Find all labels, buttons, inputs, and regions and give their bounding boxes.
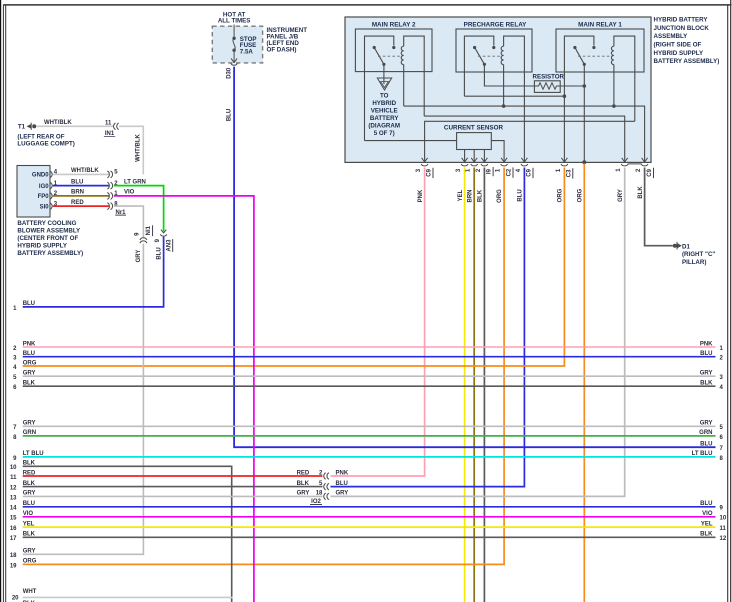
svg-text:7.5A: 7.5A bbox=[240, 49, 254, 56]
MAIN RELAY 2 switch feed wire (left pin to right contact) bbox=[365, 36, 394, 141]
wire WHT/BLK from IN1 down to blower GND0 bbox=[119, 126, 143, 174]
battery cooling blower assembly box bbox=[17, 166, 50, 218]
wire BLU from AN3 to left margin row 1 bbox=[23, 237, 164, 307]
svg-text:19: 19 bbox=[10, 563, 17, 569]
PRECHARGE RELAY actuation dashed link bbox=[478, 55, 502, 57]
connector IO2 row BLK arcs bbox=[324, 483, 326, 490]
svg-text:CURRENT SENSOR: CURRENT SENSOR bbox=[444, 125, 504, 132]
relay K2 PRECHARGE RELAY box bbox=[456, 29, 532, 72]
svg-text:20: 20 bbox=[12, 596, 19, 602]
wire BLK from pin 2 C9 to D1 splice bbox=[645, 168, 673, 246]
relay K1 MAIN RELAY 2 box bbox=[355, 29, 432, 72]
wire bus precharge feed to MAIN RELAY 1 feed (y=96) bbox=[464, 95, 564, 97]
svg-text:BLK: BLK bbox=[23, 461, 36, 467]
svg-text:16: 16 bbox=[10, 526, 17, 532]
wire BLU from pin 4 C9 to IO2 connector bbox=[331, 168, 525, 487]
svg-text:GRY: GRY bbox=[297, 491, 310, 497]
wire MAIN RELAY 1 coil top to PNK pin (y=121) bbox=[425, 121, 635, 162]
svg-text:WHT: WHT bbox=[23, 589, 37, 595]
MAIN RELAY 1 common wire down to block edge bbox=[583, 64, 585, 162]
connector arcs IG0 row bbox=[107, 182, 109, 189]
node resistor to MAIN RELAY 1 common bbox=[583, 84, 587, 88]
connector IN1 arcs bbox=[114, 123, 116, 130]
svg-text:BLK: BLK bbox=[23, 481, 36, 487]
wire row 5 GRY bbox=[23, 375, 716, 377]
svg-text:BLU: BLU bbox=[157, 247, 163, 259]
wire VIO from FP0 connector to bottom bbox=[114, 196, 254, 602]
svg-text:C9: C9 bbox=[647, 168, 653, 176]
wire GRY from SI0 connector to NI1 bbox=[114, 206, 144, 237]
resistor R1 element bbox=[537, 83, 559, 89]
svg-text:ALL TIMES: ALL TIMES bbox=[218, 18, 251, 25]
PRECHARGE RELAY coil bottom wire bbox=[503, 65, 505, 107]
svg-text:GRY: GRY bbox=[136, 250, 142, 263]
blower pin socket arc bbox=[51, 203, 53, 209]
MAIN RELAY 2 coil top wire bbox=[404, 36, 425, 116]
svg-text:FP0: FP0 bbox=[38, 194, 50, 200]
svg-text:BRN: BRN bbox=[71, 190, 84, 196]
svg-text:GRY: GRY bbox=[700, 421, 713, 427]
wire row 13 GRY bbox=[23, 495, 323, 497]
svg-text:BATTERY COOLING: BATTERY COOLING bbox=[17, 220, 76, 227]
svg-text:(DIAGRAM: (DIAGRAM bbox=[368, 122, 400, 129]
svg-text:BLK: BLK bbox=[23, 532, 36, 538]
wire RED SI0 row bbox=[53, 205, 109, 207]
connector IO2 row RED arcs bbox=[324, 473, 326, 480]
svg-text:PNK: PNK bbox=[418, 189, 424, 202]
MAIN RELAY 1 coil bottom wire bbox=[613, 65, 615, 107]
PRECHARGE RELAY switch right contact bbox=[492, 46, 495, 49]
stop fuse top terminal bbox=[232, 37, 235, 40]
page border frame left outer line bbox=[2, 5, 4, 602]
svg-text:YEL: YEL bbox=[701, 521, 713, 527]
svg-text:HYBRID SUPPLY: HYBRID SUPPLY bbox=[654, 50, 704, 57]
svg-text:GRY: GRY bbox=[23, 421, 36, 427]
svg-text:BATTERY ASSEMBLY): BATTERY ASSEMBLY) bbox=[654, 58, 720, 65]
wire LT GRN from IG0 connector to AN3 bbox=[114, 186, 164, 232]
svg-text:D30: D30 bbox=[227, 67, 233, 79]
wire bus coil commons (y=106) to BLK pin bbox=[404, 106, 645, 162]
instrument panel junction block dashed box bbox=[212, 26, 262, 63]
svg-text:GRY: GRY bbox=[23, 491, 36, 497]
PRECHARGE RELAY common wire to resistor bbox=[484, 64, 536, 86]
page border frame top line bbox=[3, 4, 731, 6]
wire row 7 GRY bbox=[23, 425, 716, 427]
MAIN RELAY 1 switch common contact bbox=[583, 63, 586, 66]
svg-text:LUGGAGE COMPT): LUGGAGE COMPT) bbox=[17, 141, 74, 148]
svg-text:GRY: GRY bbox=[23, 371, 36, 377]
MAIN RELAY 2 common wire to off-page arrow bbox=[383, 64, 385, 84]
wire BRN from current sensor pin 1 bbox=[473, 168, 475, 602]
svg-text:I9: I9 bbox=[487, 168, 493, 174]
wire ORG from MAIN RELAY 1 common pin bbox=[583, 164, 585, 602]
svg-text:VIO: VIO bbox=[702, 511, 713, 517]
svg-text:JUNCTION BLOCK: JUNCTION BLOCK bbox=[654, 25, 710, 32]
MAIN RELAY 2 coil bottom wire to node bus bbox=[403, 65, 405, 107]
svg-text:C9: C9 bbox=[527, 168, 533, 176]
svg-text:(RIGHT "C": (RIGHT "C" bbox=[682, 251, 715, 258]
svg-text:13: 13 bbox=[10, 495, 17, 501]
PRECHARGE RELAY switch common contact bbox=[483, 63, 486, 66]
svg-text:TO: TO bbox=[380, 92, 389, 99]
svg-text:GND0: GND0 bbox=[32, 173, 49, 179]
MAIN RELAY 2 switch common contact bbox=[382, 63, 385, 66]
MAIN RELAY 1 switch blade bbox=[575, 48, 584, 65]
block pin arrows bbox=[422, 158, 428, 162]
current sensor box bbox=[457, 133, 492, 150]
MAIN RELAY 2 switch right contact bbox=[392, 46, 395, 49]
wire into stop fuse bbox=[233, 25, 235, 39]
blower pin socket arc bbox=[51, 183, 53, 189]
svg-text:ORG: ORG bbox=[558, 188, 564, 202]
wire GRY from NI1 to left margin row 18 bbox=[23, 244, 144, 555]
connector arcs SI0 row bbox=[107, 203, 109, 210]
svg-text:IG0: IG0 bbox=[39, 184, 49, 190]
svg-text:OF DASH): OF DASH) bbox=[267, 47, 297, 54]
svg-text:BATTERY ASSEMBLY): BATTERY ASSEMBLY) bbox=[17, 250, 83, 257]
svg-text:GRN: GRN bbox=[23, 430, 36, 436]
svg-text:LT GRN: LT GRN bbox=[124, 179, 146, 185]
wire ORG from pin 1 C3 to left margin row 4 bbox=[23, 168, 565, 367]
svg-text:BRN: BRN bbox=[468, 190, 474, 203]
wire row 12 BLK bbox=[23, 486, 323, 488]
wire WHT/BLK GND0 row bbox=[53, 173, 109, 175]
svg-text:ORG: ORG bbox=[23, 559, 37, 565]
svg-text:5 OF 7): 5 OF 7) bbox=[374, 130, 395, 137]
stop fuse element bbox=[233, 38, 235, 50]
page border frame left inner line bbox=[5, 5, 7, 602]
wire row 6 BLK bbox=[23, 385, 716, 387]
svg-text:HYBRID BATTERY: HYBRID BATTERY bbox=[654, 17, 709, 24]
svg-text:BLOWER ASSEMBLY: BLOWER ASSEMBLY bbox=[17, 227, 81, 234]
svg-text:BLU: BLU bbox=[700, 442, 712, 448]
svg-text:BLU: BLU bbox=[71, 179, 83, 185]
MAIN RELAY 1 switch right contact bbox=[592, 46, 595, 49]
connector arcs GND0 row bbox=[107, 171, 109, 178]
PRECHARGE RELAY switch left contact bbox=[473, 46, 476, 49]
fuse output connector cup bbox=[231, 63, 237, 65]
svg-text:MAIN RELAY 1: MAIN RELAY 1 bbox=[578, 22, 622, 29]
svg-text:ASSEMBLY: ASSEMBLY bbox=[654, 33, 689, 40]
svg-text:18: 18 bbox=[316, 491, 323, 497]
svg-text:12: 12 bbox=[720, 536, 727, 542]
block pin connector cups bbox=[421, 164, 428, 166]
current sensor pin wire BRN bbox=[473, 150, 475, 163]
svg-text:C3: C3 bbox=[566, 169, 572, 177]
svg-text:(CENTER FRONT OF: (CENTER FRONT OF bbox=[17, 235, 78, 242]
wire BLK from current sensor pin 2 bbox=[483, 168, 485, 602]
svg-text:SI0: SI0 bbox=[40, 204, 50, 210]
svg-text:BLU: BLU bbox=[227, 109, 233, 121]
wire BLU IG0 row bbox=[53, 185, 109, 187]
AN3 female cup bbox=[160, 234, 166, 236]
connector IO2 row GRY arcs bbox=[324, 493, 326, 500]
wire ORG from pin 1 C2 to left margin row 19 bbox=[23, 168, 504, 565]
svg-text:BLK: BLK bbox=[478, 189, 484, 202]
svg-text:11: 11 bbox=[105, 120, 112, 126]
wire row 20 WHT bbox=[23, 596, 233, 598]
svg-text:YEL: YEL bbox=[458, 189, 464, 201]
svg-text:14: 14 bbox=[10, 506, 17, 512]
wire row 16 YEL bbox=[23, 526, 716, 528]
joined connector cups for GRY and BLK pins bbox=[621, 164, 648, 166]
svg-text:VEHICLE: VEHICLE bbox=[371, 107, 398, 114]
svg-text:ORG: ORG bbox=[578, 188, 584, 202]
svg-text:WHT/BLK: WHT/BLK bbox=[44, 120, 72, 126]
svg-text:RESISTOR: RESISTOR bbox=[533, 74, 565, 81]
relay K3 MAIN RELAY 1 box bbox=[556, 29, 644, 72]
svg-text:RED: RED bbox=[23, 470, 36, 476]
svg-text:BLK: BLK bbox=[638, 186, 644, 199]
svg-text:WHT/BLK: WHT/BLK bbox=[136, 134, 142, 162]
wire WHT/BLK from T1 to IN1 bbox=[36, 125, 113, 127]
wire row 15 VIO bbox=[23, 516, 716, 518]
svg-text:LT BLU: LT BLU bbox=[692, 451, 713, 457]
MAIN RELAY 1 coil bbox=[611, 46, 613, 64]
svg-text:BATTERY: BATTERY bbox=[370, 115, 399, 122]
svg-text:15: 15 bbox=[10, 516, 17, 522]
svg-text:D1: D1 bbox=[682, 243, 690, 250]
MAIN RELAY 1 coil top wire bbox=[614, 36, 635, 121]
wire row 8 GRN bbox=[23, 435, 716, 437]
svg-text:(LEFT REAR OF: (LEFT REAR OF bbox=[17, 133, 64, 140]
MAIN RELAY 2 switch blade bbox=[374, 48, 384, 65]
svg-text:AN3: AN3 bbox=[166, 239, 172, 252]
wire row 11 RED bbox=[23, 475, 323, 477]
wire row 17 BLK bbox=[23, 536, 716, 538]
svg-text:(RIGHT SIDE OF: (RIGHT SIDE OF bbox=[654, 42, 702, 49]
svg-text:18: 18 bbox=[10, 553, 17, 559]
svg-text:NI1: NI1 bbox=[146, 225, 152, 235]
svg-text:BLU: BLU bbox=[23, 501, 35, 507]
svg-text:12: 12 bbox=[10, 486, 17, 492]
wire from stop fuse to box edge bbox=[233, 50, 235, 62]
wire GRY from pin 1 to IO2 connector bbox=[331, 168, 625, 497]
PRECHARGE RELAY coil bbox=[501, 46, 503, 64]
hybrid battery junction block assembly outline bbox=[345, 17, 651, 162]
wire PNK from pin 3 to IO2 connector bbox=[331, 168, 425, 477]
PRECHARGE RELAY switch feed wire (right contact to left pin) bbox=[464, 36, 493, 96]
svg-text:BLU: BLU bbox=[23, 351, 35, 357]
svg-text:LT BLU: LT BLU bbox=[23, 451, 44, 457]
blower pin socket arc bbox=[51, 171, 53, 177]
node precharge coil bottom on bus bbox=[502, 104, 506, 108]
svg-text:HYBRID: HYBRID bbox=[372, 100, 396, 107]
wire MAIN RELAY 2 coil top to GRY pin (y=116) bbox=[424, 116, 625, 162]
AN3 male arrow bbox=[161, 230, 166, 233]
svg-text:11: 11 bbox=[720, 526, 727, 532]
left image-edge line bbox=[0, 0, 2, 602]
current sensor pin wire BLK bbox=[483, 150, 485, 163]
off-page arrow to hybrid vehicle battery bbox=[377, 78, 391, 90]
svg-text:VIO: VIO bbox=[23, 511, 34, 517]
svg-text:BLU: BLU bbox=[518, 189, 524, 201]
node MAIN RELAY 1 common pin (dot on block edge) bbox=[582, 160, 586, 164]
svg-text:BLU: BLU bbox=[336, 481, 348, 487]
splice T1 symbol bbox=[27, 125, 30, 128]
svg-text:BLU: BLU bbox=[700, 501, 712, 507]
PRECHARGE RELAY switch blade bbox=[475, 48, 485, 65]
MAIN RELAY 1 switch left contact bbox=[573, 46, 576, 49]
wire row 3 BLU bbox=[23, 356, 716, 358]
svg-text:BLK: BLK bbox=[700, 381, 713, 387]
wire row 2 PNK bbox=[23, 346, 716, 348]
PRECHARGE RELAY coil top wire to pin 4 bbox=[504, 36, 525, 162]
MAIN RELAY 1 switch feed wire (left pin down to ORG pin) bbox=[564, 36, 594, 162]
node MAIN RELAY 1 feed on 96-bus bbox=[563, 94, 567, 98]
svg-text:VIO: VIO bbox=[124, 190, 135, 196]
svg-text:T1: T1 bbox=[18, 124, 26, 131]
svg-text:BLK: BLK bbox=[700, 532, 713, 538]
wire BRN FP0 row bbox=[53, 195, 109, 197]
connector arcs FP0 row bbox=[107, 193, 109, 200]
wire row 10 BLK to bottom bbox=[23, 466, 232, 602]
blower pin socket arc bbox=[51, 193, 53, 199]
svg-text:YEL: YEL bbox=[23, 521, 35, 527]
svg-text:ORG: ORG bbox=[23, 360, 37, 366]
node MAIN RELAY 1 coil bottom on bus bbox=[612, 104, 616, 108]
MAIN RELAY 2 switch left contact bbox=[373, 46, 376, 49]
svg-text:C2: C2 bbox=[507, 168, 513, 176]
svg-text:C9: C9 bbox=[427, 168, 433, 176]
svg-text:BLU: BLU bbox=[700, 351, 712, 357]
svg-text:RED: RED bbox=[71, 200, 84, 206]
svg-text:PILLAR): PILLAR) bbox=[682, 259, 706, 266]
page border frame right inner line bbox=[727, 5, 729, 602]
svg-text:BLU: BLU bbox=[23, 301, 35, 307]
wire MAIN RELAY 2 left pin to current sensor bbox=[365, 140, 457, 142]
svg-text:PRECHARGE RELAY: PRECHARGE RELAY bbox=[464, 22, 528, 29]
splice D1 symbol bbox=[673, 244, 677, 248]
wire YEL from current sensor pin 3 bbox=[464, 168, 466, 602]
svg-text:GRY: GRY bbox=[700, 371, 713, 377]
svg-text:PNK: PNK bbox=[336, 470, 349, 476]
svg-text:11: 11 bbox=[10, 475, 17, 481]
fuse output arrow bbox=[231, 58, 237, 62]
resistor R1 right wire to main relay 1 common bbox=[559, 85, 585, 87]
svg-text:HYBRID SUPPLY: HYBRID SUPPLY bbox=[17, 242, 67, 249]
wire row 14 BLU bbox=[23, 506, 716, 508]
svg-text:ORG: ORG bbox=[497, 189, 503, 203]
resistor R1 box bbox=[534, 81, 560, 93]
wire row 9 LT BLU bbox=[23, 456, 716, 458]
svg-text:BLK: BLK bbox=[297, 481, 310, 487]
svg-text:MAIN RELAY 2: MAIN RELAY 2 bbox=[372, 22, 416, 29]
wire BLU from fuse D30 to right margin row 7 bbox=[234, 67, 715, 448]
MAIN RELAY 2 coil bbox=[401, 46, 403, 64]
svg-text:GRN: GRN bbox=[699, 430, 712, 436]
svg-text:GRY: GRY bbox=[618, 189, 624, 202]
svg-text:PNK: PNK bbox=[23, 341, 36, 347]
svg-text:GRY: GRY bbox=[23, 549, 36, 555]
svg-text:BLK: BLK bbox=[23, 381, 36, 387]
connector NI1 arcs bbox=[140, 238, 147, 240]
svg-text:WHT/BLK: WHT/BLK bbox=[71, 168, 99, 174]
svg-text:17: 17 bbox=[10, 536, 17, 542]
svg-text:10: 10 bbox=[10, 465, 17, 471]
current sensor pin wire YEL bbox=[464, 150, 466, 163]
svg-text:PNK: PNK bbox=[700, 341, 713, 347]
page border frame right outer line bbox=[730, 0, 732, 602]
svg-text:RED: RED bbox=[297, 470, 310, 476]
svg-text:GRY: GRY bbox=[336, 491, 349, 497]
MAIN RELAY 2 actuation dashed link bbox=[378, 55, 402, 57]
svg-text:10: 10 bbox=[720, 516, 727, 522]
current sensor right wire to ORG pin bbox=[491, 141, 504, 163]
stop fuse bottom terminal bbox=[232, 49, 235, 52]
MAIN RELAY 1 actuation dashed link bbox=[578, 55, 612, 57]
